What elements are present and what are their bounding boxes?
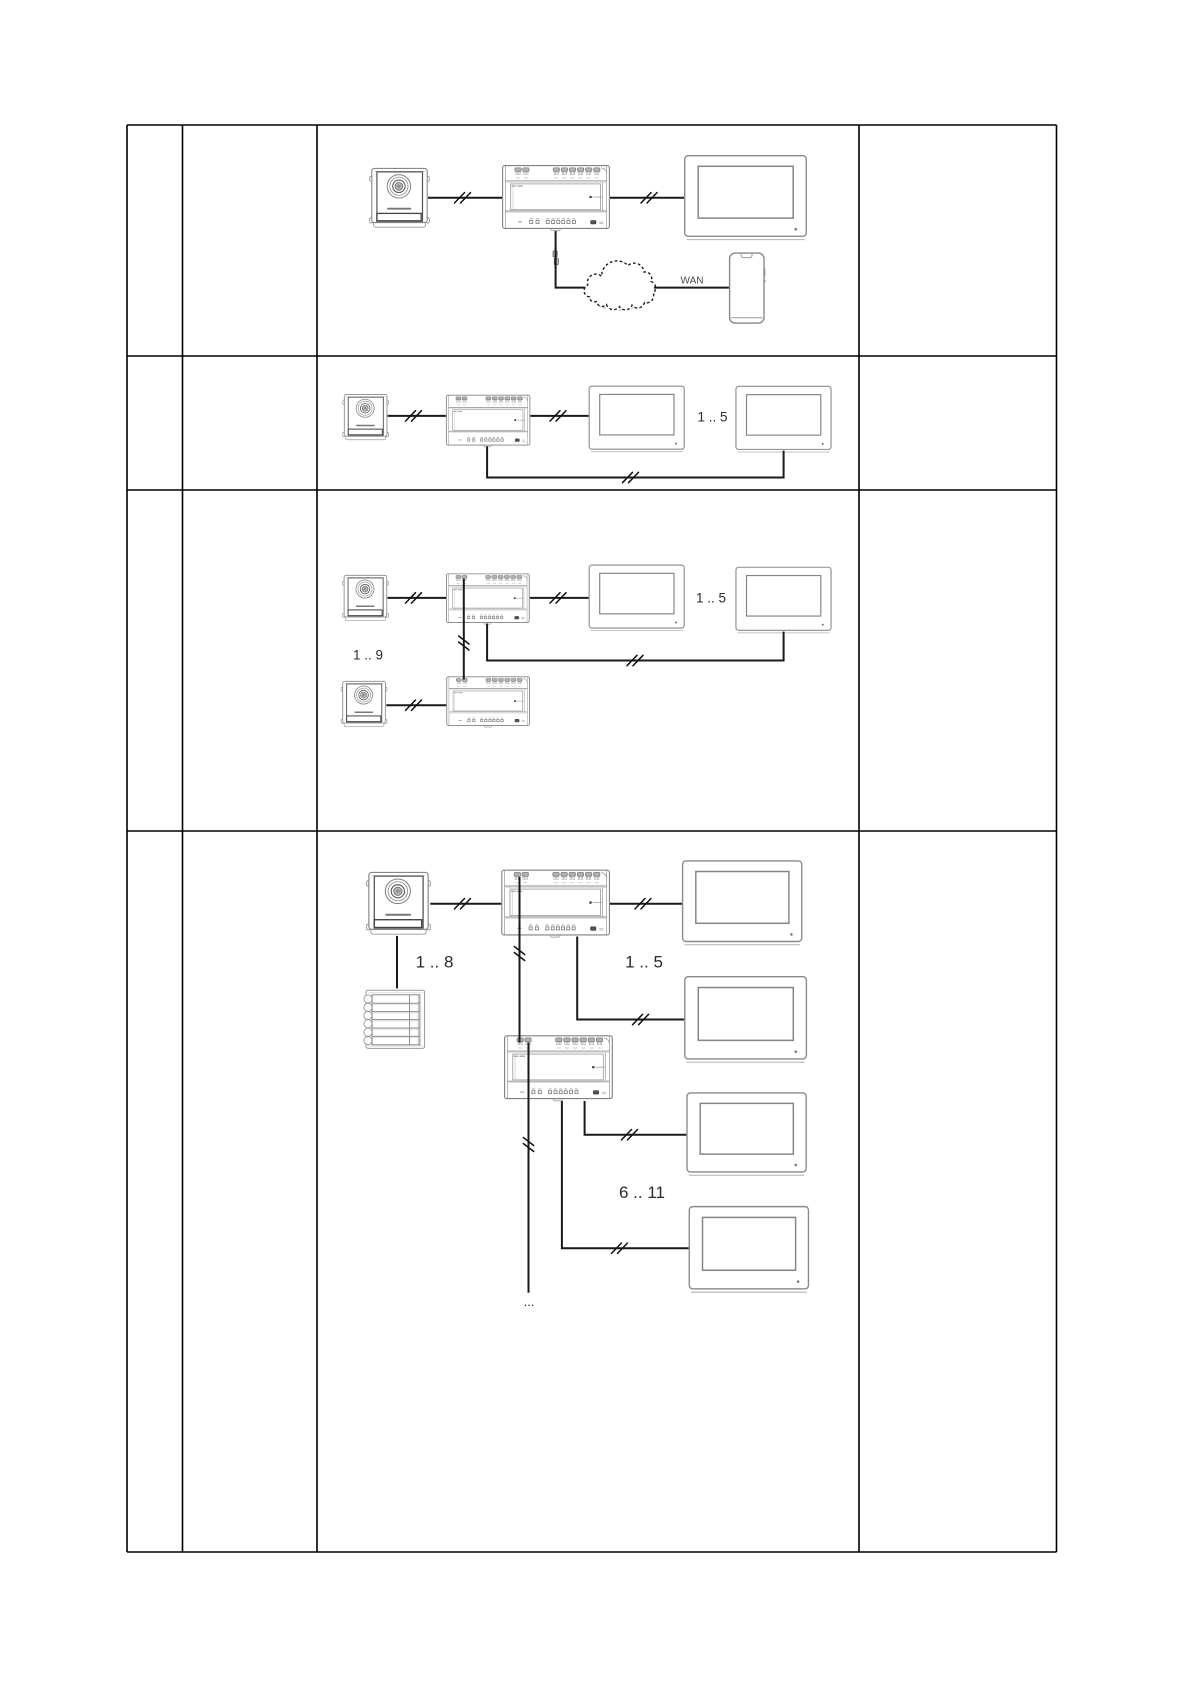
row 4: indoor monitor M6 — [687, 1093, 806, 1175]
table grid — [127, 125, 1057, 1552]
row 3: wire DS1 to U1 — [388, 597, 447, 599]
row 3: IP gateway controller U2 — [447, 677, 530, 727]
row 3: bus wire U1 down to U2 — [463, 579, 465, 680]
svg-text:1 .. 9: 1 .. 9 — [353, 648, 383, 663]
row 1: WAN cloud — [599, 298, 652, 309]
row 4: cable marker on U2 bus — [523, 1138, 533, 1152]
row 4: cable marker — [635, 899, 651, 909]
svg-text:1 .. 5: 1 .. 5 — [625, 952, 663, 971]
row 3: indoor monitor M1 — [589, 565, 684, 631]
row 1: smartphone — [730, 253, 766, 323]
row 2: cable marker on DS1-U1 wire — [406, 411, 422, 421]
svg-text:WAN: WAN — [681, 276, 704, 287]
row 3: cable marker on U1-U2 bus — [459, 636, 469, 650]
row 4: bus wire U2 continuing down — [528, 1043, 530, 1293]
row 2: indoor monitor M1 — [589, 386, 684, 452]
row 1: cable marker on U1-M1 wire — [641, 193, 657, 203]
row 3: IP gateway controller U1 — [446, 574, 529, 624]
row 4: IP gateway controller U2 — [505, 1036, 613, 1101]
row 2: wire DS1 to U1 — [388, 415, 446, 417]
row 2: indoor monitor M5 — [736, 386, 831, 452]
row 4: bus wire U1 down to U2 — [519, 877, 521, 1043]
row 3: indoor monitor M5 — [736, 567, 831, 633]
row 1: RJ45 connector pair on vertical wire — [553, 251, 557, 257]
row 3: wire U1 to M1 — [530, 597, 589, 599]
svg-text:...: ... — [524, 1294, 535, 1309]
svg-text:6 .. 11: 6 .. 11 — [619, 1183, 665, 1202]
row 3: cable marker — [627, 655, 643, 665]
row 2: door station DS1 — [343, 394, 389, 439]
row 3: cable marker — [550, 593, 566, 603]
row 1: wire cloud to smartphone — [654, 287, 729, 289]
row 4: wire DS1 down to push-button module — [396, 936, 398, 989]
row 2: cable marker on U1-M1 wire — [550, 411, 566, 421]
svg-text:1 .. 5: 1 .. 5 — [697, 410, 727, 425]
row 4: wire U1 to M1 — [610, 903, 682, 905]
row 4: indoor monitor M11 — [689, 1207, 808, 1293]
row 3: cable marker — [406, 593, 422, 603]
row 1: IP gateway controller U1 — [503, 166, 610, 231]
row 1: cable marker on DS1-U1 wire — [455, 193, 471, 203]
row 4: cable marker on U1-U2 bus — [514, 947, 524, 961]
row 4: wire U2 down to monitor M11 — [562, 1101, 689, 1248]
row 2: IP gateway controller U1 — [446, 395, 530, 447]
row 2: cable marker on bus wire — [623, 472, 639, 482]
row 3: door station DS1 — [342, 575, 388, 620]
row 4: IP gateway controller U1 — [502, 870, 610, 937]
row 4: wire U1 down to monitor M2 — [577, 937, 684, 1020]
svg-text:1 .. 5: 1 .. 5 — [696, 590, 726, 605]
row 4: push-button module — [364, 990, 425, 1048]
row 3: wire DS9 to U2 — [386, 704, 446, 706]
row 2: wire U1 to M1 — [530, 415, 588, 417]
row 1: wire U1 to M1 — [610, 197, 684, 199]
svg-text:1 .. 8: 1 .. 8 — [416, 952, 454, 971]
row 4: cable marker — [612, 1243, 628, 1253]
row 4: door station DS1 — [367, 872, 431, 934]
row 4: cable marker — [455, 899, 471, 909]
row 4: cable marker — [622, 1130, 638, 1140]
row 2: bus wire U1 to monitor M5 — [487, 446, 783, 477]
row 1: door station DS1 — [370, 168, 430, 227]
row 4: cable marker — [633, 1014, 649, 1024]
row 1: wire DS1 to U1 — [428, 197, 502, 199]
row 1: indoor monitor M1 — [685, 156, 807, 240]
row 4: indoor monitor M2 — [685, 977, 807, 1063]
row 1: wire U1 down to WAN cloud — [556, 231, 589, 288]
row 4: indoor monitor M1 — [683, 861, 802, 945]
row 3: cable marker — [406, 700, 422, 710]
row 4: wire DS1 to U1 — [430, 903, 501, 905]
row 3: bus wire U1 to monitor M5 — [487, 624, 783, 661]
row 3: door station DS9 — [341, 681, 387, 726]
row 4: wire U2 down to monitor M6 — [585, 1101, 687, 1135]
